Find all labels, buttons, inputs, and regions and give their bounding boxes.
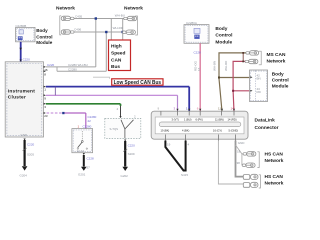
svg-text:Connector: Connector bbox=[255, 125, 279, 131]
svg-text:6 (PK): 6 (PK) bbox=[196, 118, 203, 122]
svg-text:5 (GND): 5 (GND) bbox=[229, 129, 239, 133]
svg-text:3 (VT): 3 (VT) bbox=[172, 118, 179, 122]
svg-text:Body: Body bbox=[272, 71, 284, 77]
svg-text:Module: Module bbox=[36, 40, 53, 45]
svg-text:Network: Network bbox=[267, 58, 286, 64]
svg-text:Network: Network bbox=[124, 6, 143, 12]
svg-text:Control: Control bbox=[215, 33, 232, 39]
svg-text:18: 18 bbox=[237, 150, 241, 154]
svg-text:WH-BN: WH-BN bbox=[213, 61, 217, 71]
svg-text:Instrument: Instrument bbox=[8, 88, 35, 94]
svg-text:Module: Module bbox=[272, 84, 289, 90]
svg-text:GND: GND bbox=[21, 133, 29, 137]
svg-text:S-TQS: S-TQS bbox=[110, 127, 119, 131]
svg-text:G201: G201 bbox=[78, 173, 86, 177]
svg-text:Cluster: Cluster bbox=[8, 95, 26, 101]
svg-text:S415: S415 bbox=[181, 173, 188, 177]
svg-text:HS CAN: HS CAN bbox=[265, 174, 284, 180]
svg-text:Control: Control bbox=[272, 78, 289, 84]
svg-text:High: High bbox=[111, 44, 122, 50]
svg-text:G202: G202 bbox=[121, 174, 129, 178]
svg-text:4 (BK): 4 (BK) bbox=[182, 129, 189, 133]
svg-text:WH-RD: WH-RD bbox=[224, 60, 228, 71]
svg-text:19 (BK): 19 (BK) bbox=[161, 129, 170, 133]
svg-text:WH-RD: WH-RD bbox=[113, 26, 124, 30]
svg-text:C220: C220 bbox=[128, 144, 136, 148]
svg-text:MS CAN: MS CAN bbox=[267, 52, 286, 58]
svg-text:C228: C228 bbox=[194, 51, 202, 55]
svg-text:Network: Network bbox=[265, 180, 284, 186]
svg-text:S205: S205 bbox=[27, 153, 34, 157]
svg-text:19: 19 bbox=[167, 143, 171, 147]
svg-text:57: 57 bbox=[87, 166, 91, 170]
svg-text:Low Speed CAN Bus: Low Speed CAN Bus bbox=[114, 80, 162, 86]
svg-text:C2280: C2280 bbox=[68, 68, 77, 72]
svg-text:22: 22 bbox=[88, 119, 92, 123]
svg-text:11: 11 bbox=[218, 107, 221, 111]
svg-text:Network: Network bbox=[265, 158, 284, 164]
svg-text:C405: C405 bbox=[75, 15, 83, 19]
svg-text:CAN: CAN bbox=[111, 58, 122, 64]
svg-text:Network: Network bbox=[56, 5, 75, 11]
svg-text:12 34: 12 34 bbox=[77, 149, 85, 153]
svg-text:Bus: Bus bbox=[111, 64, 120, 70]
svg-text:Module: Module bbox=[215, 39, 232, 45]
svg-text:Body: Body bbox=[36, 28, 48, 33]
svg-text:14 (RD): 14 (RD) bbox=[228, 118, 237, 122]
svg-text:16 (GY): 16 (GY) bbox=[213, 129, 222, 133]
svg-text:Speed: Speed bbox=[111, 51, 125, 57]
svg-text:16: 16 bbox=[197, 67, 201, 71]
svg-text:11 (BN): 11 (BN) bbox=[215, 118, 224, 122]
svg-text:WH-BU: WH-BU bbox=[115, 14, 125, 18]
svg-text:C220: C220 bbox=[23, 58, 31, 62]
svg-text:38: 38 bbox=[237, 161, 241, 165]
svg-text:C220: C220 bbox=[27, 143, 35, 147]
svg-text:Control: Control bbox=[36, 34, 52, 39]
svg-text:16: 16 bbox=[44, 68, 48, 72]
svg-text:14: 14 bbox=[231, 107, 235, 111]
svg-text:GND: GND bbox=[238, 141, 246, 145]
svg-text:23: 23 bbox=[44, 114, 48, 118]
svg-text:C2280: C2280 bbox=[83, 125, 92, 129]
svg-text:C2280B: C2280B bbox=[15, 24, 26, 28]
svg-text:C2280A: C2280A bbox=[186, 21, 197, 25]
svg-text:1 (BU): 1 (BU) bbox=[184, 118, 192, 122]
svg-text:HS CAN: HS CAN bbox=[265, 152, 284, 158]
svg-text:S209: S209 bbox=[128, 152, 135, 156]
svg-text:BN: BN bbox=[257, 77, 261, 81]
svg-text:C228: C228 bbox=[87, 157, 95, 161]
svg-text:G204: G204 bbox=[20, 174, 28, 178]
svg-text:C406: C406 bbox=[74, 27, 82, 31]
svg-text:C2280 WH-BU: C2280 WH-BU bbox=[68, 63, 88, 67]
svg-text:Body: Body bbox=[215, 26, 227, 32]
svg-text:DataLink: DataLink bbox=[255, 118, 276, 124]
svg-text:C220: C220 bbox=[47, 63, 55, 67]
